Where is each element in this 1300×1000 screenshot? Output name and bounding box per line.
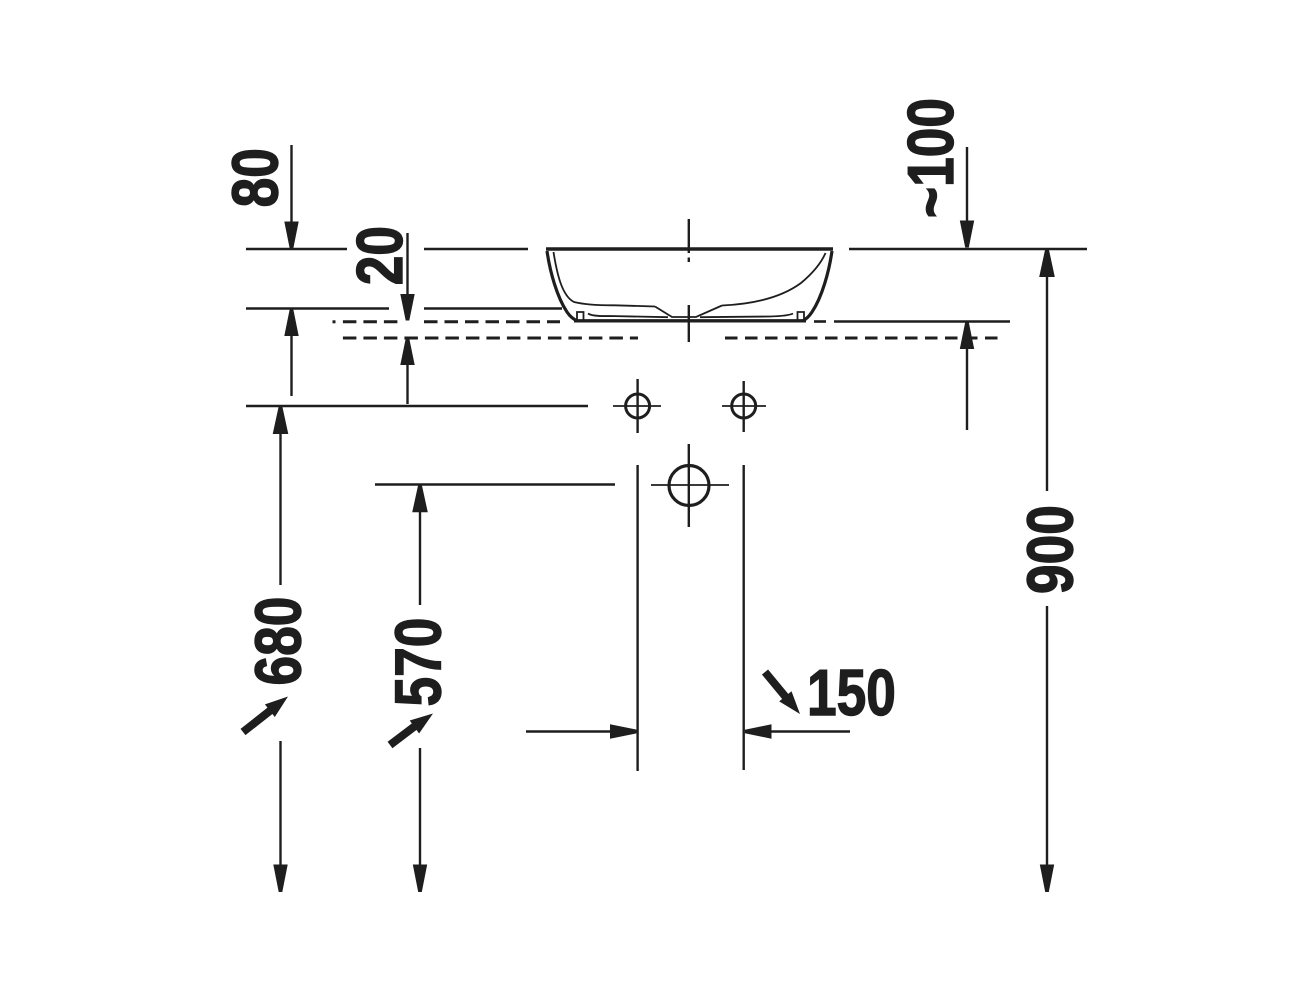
dim ~100 down arrow <box>960 221 974 248</box>
dim 150 left-pointing arrow <box>745 724 772 738</box>
basin foot tab left <box>577 312 584 320</box>
rim reference line middle segment <box>424 248 528 251</box>
dim 80 upper shaft <box>290 145 292 224</box>
dashed line level B left part2 <box>424 320 560 323</box>
dim 900 up arrow <box>1039 250 1055 278</box>
dim 20 down arrow <box>400 294 414 321</box>
basin foot tab right <box>798 312 805 320</box>
dim 570 oblique arrow <box>390 714 433 746</box>
dim 570 up arrow <box>412 485 428 512</box>
svg-text:80: 80 <box>218 148 291 207</box>
center line through basin bottom <box>688 305 690 342</box>
dim 570 upper shaft <box>419 512 421 605</box>
dim ~100 up arrow <box>960 322 974 349</box>
basin inner wall left <box>554 252 656 307</box>
dim 150 right shaft <box>771 730 850 732</box>
dashed line lower right <box>725 337 1004 340</box>
countertop line B short dash <box>814 320 826 323</box>
dashed line level B left <box>343 320 399 323</box>
dim 900 upper shaft <box>1046 277 1048 492</box>
basin bottom contact line right <box>700 314 793 318</box>
basin rim top <box>546 247 833 251</box>
countertop line B solid segment <box>834 320 1010 323</box>
basin outer wall right <box>803 251 832 321</box>
faucet hole 1 vertical crosshair <box>636 379 638 433</box>
center line dot <box>688 258 690 263</box>
countertop line A left segment <box>246 307 389 310</box>
dim 680 down arrow <box>273 865 287 893</box>
dim 20 upper shaft <box>406 233 408 296</box>
dim ~100 lower shaft <box>966 349 968 431</box>
dim 570 down arrow <box>413 865 427 893</box>
basin outer wall left <box>547 251 577 321</box>
center line above basin <box>688 219 690 253</box>
svg-text:~100: ~100 <box>894 98 967 218</box>
countertop line A right segment <box>424 307 562 310</box>
basin outer bottom <box>574 319 806 322</box>
dim 900 down arrow <box>1040 865 1054 893</box>
dashed line level B leading dot <box>333 320 336 323</box>
dim 570 lower shaft <box>419 748 421 866</box>
faucet hole 2 horizontal crosshair <box>722 405 766 407</box>
vertical line below faucet hole 2 <box>743 465 745 770</box>
faucet-hole level line y406 <box>246 405 588 408</box>
drain level line y484 <box>375 483 615 485</box>
dim 80 down arrow <box>284 222 298 249</box>
faucet hole 1 horizontal crosshair <box>613 405 661 407</box>
dim 80 up arrow <box>284 309 298 336</box>
svg-text:20: 20 <box>343 226 416 285</box>
dim 680 oblique arrow <box>243 697 288 733</box>
dashed line lower left <box>343 337 638 340</box>
basin sump <box>655 306 722 318</box>
dim 680 upper shaft <box>279 434 281 586</box>
svg-text:900: 900 <box>1013 505 1086 594</box>
dim 680 lower shaft <box>279 741 281 866</box>
dim 680 up arrow <box>273 407 289 434</box>
dim ~100 upper shaft <box>966 147 968 223</box>
dim 150 oblique arrow <box>765 672 800 714</box>
faucet hole 2 vertical crosshair <box>743 381 745 432</box>
dim 150 left shaft <box>526 730 611 732</box>
dim 150 right-pointing arrow <box>610 724 637 738</box>
svg-text:680: 680 <box>241 597 314 686</box>
basin bottom contact line left <box>588 314 668 318</box>
basin inner wall right <box>722 253 826 306</box>
drain horizontal crosshair <box>651 484 729 486</box>
dim 20 lower shaft <box>406 365 408 404</box>
faucet hole circle 1 <box>626 394 650 418</box>
drain vertical crosshair <box>688 444 690 527</box>
rim reference line left segment <box>246 248 347 251</box>
faucet hole circle 2 <box>732 394 756 418</box>
svg-text:570: 570 <box>381 618 454 707</box>
vertical line below faucet hole 1 <box>636 465 638 771</box>
dim 20 up arrow <box>400 339 414 365</box>
dim 80 lower shaft <box>290 336 292 396</box>
rim reference line right segment <box>849 248 1087 251</box>
svg-text:150: 150 <box>807 656 896 729</box>
dim 900 lower shaft <box>1046 606 1048 866</box>
drain circle <box>669 466 709 506</box>
